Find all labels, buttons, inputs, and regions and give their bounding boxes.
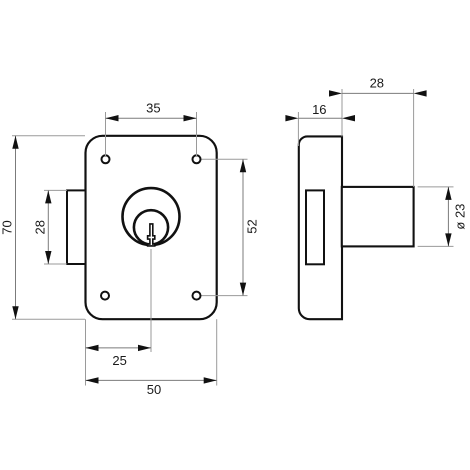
extension line cylinder end up <box>413 89 415 187</box>
front view left strike tab <box>67 190 86 264</box>
extension line side body left up <box>297 112 299 146</box>
arrow 50 left <box>86 377 99 383</box>
svg-text:ø 23: ø 23 <box>453 204 468 230</box>
svg-text:70: 70 <box>0 220 14 234</box>
svg-text:16: 16 <box>312 102 326 117</box>
cylinder rose outer circle <box>123 188 180 245</box>
screw hole bottom-left <box>101 292 109 300</box>
dimension line 70 <box>15 136 17 319</box>
arrow diameter 23 up <box>445 187 451 200</box>
extension line hole TR up <box>196 112 198 157</box>
arrow 28 top right outside <box>414 90 427 96</box>
extension line hole TL up <box>12 89 454 386</box>
dimension line 16 <box>298 117 342 119</box>
extension line side body right up <box>341 89 343 137</box>
arrow 25 left <box>86 345 99 351</box>
extension line 28 left top <box>44 189 67 191</box>
extension line body left down <box>85 319 87 385</box>
screw hole top-left <box>102 155 110 163</box>
side view lock body <box>299 136 342 319</box>
arrow 52 down <box>240 283 246 296</box>
svg-text:35: 35 <box>146 101 160 116</box>
side view cylinder barrel <box>342 187 414 247</box>
extension line 52 bottom <box>202 295 248 297</box>
extension line 52 top <box>202 158 248 160</box>
extension line center axis down <box>150 249 152 352</box>
arrow 16 left outside <box>285 115 298 121</box>
arrow 50 right <box>204 377 217 383</box>
arrows <box>12 90 451 383</box>
arrow 28 left down <box>45 251 51 264</box>
arrow 16 right outside <box>342 115 355 121</box>
cylinder face inner circle <box>134 210 168 244</box>
arrow 28 left up <box>45 190 51 203</box>
svg-text:28: 28 <box>33 220 48 234</box>
keyway profile <box>148 224 155 246</box>
arrow 70 up <box>12 136 18 149</box>
extension line 70 bottom <box>12 318 85 320</box>
extension line cylinder top right <box>418 186 454 188</box>
arrow 25 right <box>138 345 151 351</box>
extension line cylinder bottom right <box>418 245 454 247</box>
dimension line 28 top <box>342 92 414 94</box>
svg-text:25: 25 <box>112 353 126 368</box>
extension line body right down <box>216 319 218 385</box>
arrow 52 up <box>240 159 246 172</box>
dimension line 35 <box>16 93 449 380</box>
dimension line 25 <box>86 347 152 349</box>
arrow 35 right <box>184 115 197 121</box>
svg-text:50: 50 <box>147 382 161 397</box>
extension line 70 top <box>12 135 85 137</box>
arrow diameter 23 down <box>445 233 451 246</box>
dimension line diameter 23 <box>447 187 449 247</box>
front view lock body <box>86 136 217 319</box>
dimension line 52 <box>242 159 244 295</box>
dimension line 50 <box>86 379 217 381</box>
arrow 70 down <box>12 306 18 319</box>
arrow 28 top left outside <box>329 90 342 96</box>
svg-text:52: 52 <box>244 219 259 233</box>
arrow 35 left <box>106 115 119 121</box>
screw hole top-right <box>193 155 201 163</box>
screw hole bottom-right <box>193 292 201 300</box>
side view strike slot <box>306 190 324 264</box>
dimension line 28 left <box>47 190 49 264</box>
extension line 28 left bottom <box>44 263 67 265</box>
svg-text:28: 28 <box>370 75 384 90</box>
